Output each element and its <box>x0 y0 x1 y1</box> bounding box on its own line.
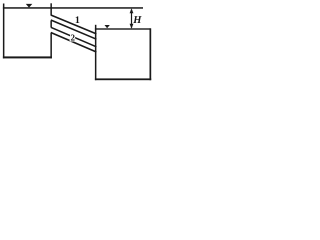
svg-text:H: H <box>132 15 142 26</box>
pipe 1 top line <box>51 15 97 34</box>
svg-text:1: 1 <box>75 15 80 26</box>
right tank right wall <box>150 28 152 80</box>
left tank bottom <box>3 56 52 58</box>
pipe 1 bottom line <box>51 20 97 39</box>
top water surface line <box>3 7 143 9</box>
pipe 2 label <box>71 33 76 43</box>
left tank right wall (upper segment) <box>50 3 52 15</box>
svg-text:2: 2 <box>71 33 76 43</box>
H dimension arrow <box>130 8 134 29</box>
pipe 2 top line <box>51 27 97 47</box>
pipe 2 bottom line <box>51 33 97 53</box>
left tank right wall (middle segment between pipes) <box>50 21 52 27</box>
right water level symbol <box>105 25 110 28</box>
left tank left wall <box>3 4 5 59</box>
H label <box>132 15 142 26</box>
right tank bottom <box>95 78 151 80</box>
right water surface line <box>95 28 151 29</box>
right tank left wall <box>95 25 97 80</box>
left tank right wall (lower segment) <box>50 33 52 59</box>
pipe 1 label <box>75 15 80 26</box>
left water level symbol <box>26 4 33 8</box>
